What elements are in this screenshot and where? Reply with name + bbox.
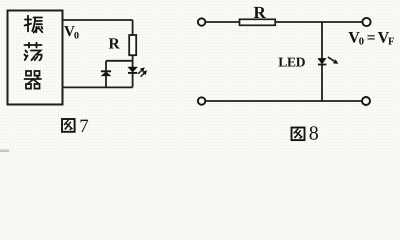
oscillator label 器: [25, 71, 42, 89]
svg-text:R: R: [109, 36, 121, 53]
wire: oscillator output top: [63, 19, 133, 21]
svg-text:7: 7: [79, 116, 89, 137]
oscillator label 振: [25, 16, 43, 33]
LED D3 light arrow: [328, 57, 338, 63]
wire: resistor to terminal T2: [275, 21, 362, 23]
resistor R (fig 8, horizontal body): [240, 19, 276, 25]
svg-text:0: 0: [74, 31, 79, 42]
oscillator label 荡: [25, 43, 42, 61]
svg-text:=: =: [367, 29, 376, 46]
wire: resistor bottom to LED anode: [132, 55, 134, 67]
terminal T4 (fig 8 bottom-right): [362, 97, 370, 105]
wire: junction down to LED anode: [321, 22, 323, 58]
diode D1 (protection, cathode up): [101, 71, 111, 75]
svg-text:8: 8: [309, 122, 319, 144]
wire: bottom rail (fig 8): [206, 100, 362, 102]
wire: top rail of diode pair: [106, 60, 133, 62]
wire: LED cathode to bottom rail: [321, 65, 323, 102]
svg-text:F: F: [388, 37, 394, 48]
svg-text:LED: LED: [278, 55, 305, 70]
wire: D1 anode to bottom rail: [105, 76, 107, 88]
wire: down to diode D1 cathode: [105, 61, 107, 71]
label V0 = VF: [348, 29, 394, 47]
terminal T2 (fig 8 top-right): [362, 18, 370, 26]
terminal T1 (fig 8 top-left): [198, 18, 205, 25]
oscillator box U1: [8, 11, 63, 105]
LED D2 (fig 7, cathode down): [128, 67, 137, 73]
resistor R (fig 7, vertical body): [129, 35, 136, 55]
LED D3 (fig 8, cathode down): [318, 58, 326, 64]
wire: T1 to resistor R: [206, 21, 240, 23]
svg-text:0: 0: [359, 37, 364, 48]
terminal T3 (fig 8 bottom-left): [198, 97, 205, 104]
wire: LED cathode to bottom rail: [132, 73, 134, 87]
wire: down to resistor R: [132, 20, 134, 35]
scan smudge bottom-left: [0, 150, 9, 153]
wire: bottom rail back to oscillator: [63, 86, 133, 88]
caption 图 (fig 8): [292, 128, 305, 141]
LED D2 light arrows: [138, 68, 146, 77]
caption 图 (fig 7): [62, 119, 75, 132]
